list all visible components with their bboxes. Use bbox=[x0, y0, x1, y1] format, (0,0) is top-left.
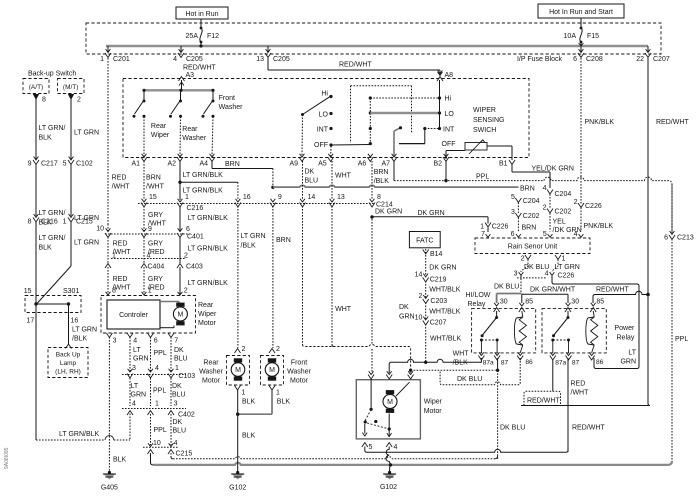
svg-text:LO: LO bbox=[319, 112, 329, 119]
svg-text:C403: C403 bbox=[186, 264, 203, 271]
svg-text:GRN: GRN bbox=[133, 356, 149, 363]
svg-text:/BLK: /BLK bbox=[453, 360, 469, 367]
svg-text:RED/WHT: RED/WHT bbox=[656, 119, 689, 126]
svg-text:4: 4 bbox=[545, 271, 549, 278]
svg-text:Controler: Controler bbox=[119, 312, 148, 319]
svg-text:C226: C226 bbox=[585, 203, 602, 210]
svg-text:LT GRN/BLK: LT GRN/BLK bbox=[59, 431, 100, 438]
svg-text:9: 9 bbox=[148, 226, 152, 233]
svg-text:BLK: BLK bbox=[39, 245, 53, 252]
svg-text:Washer: Washer bbox=[182, 135, 207, 142]
svg-text:B2: B2 bbox=[433, 161, 442, 168]
svg-text:GRY: GRY bbox=[148, 212, 163, 219]
svg-text:LO: LO bbox=[445, 111, 455, 118]
svg-text:DK GRN/WHT: DK GRN/WHT bbox=[530, 287, 576, 294]
svg-text:2: 2 bbox=[543, 205, 547, 212]
svg-text:C204: C204 bbox=[555, 191, 572, 198]
svg-text:2: 2 bbox=[574, 199, 578, 206]
svg-text:7: 7 bbox=[481, 231, 485, 238]
svg-text:3: 3 bbox=[514, 271, 518, 278]
svg-text:LT GRN: LT GRN bbox=[74, 240, 99, 247]
svg-text:RED: RED bbox=[571, 381, 586, 388]
svg-text:C219: C219 bbox=[430, 277, 447, 284]
svg-text:DK BLU: DK BLU bbox=[457, 376, 482, 383]
svg-text:PPL: PPL bbox=[154, 350, 167, 357]
svg-text:17: 17 bbox=[27, 318, 35, 325]
svg-text:6: 6 bbox=[154, 338, 158, 345]
svg-text:87: 87 bbox=[501, 360, 509, 367]
svg-text:OFF: OFF bbox=[442, 141, 456, 148]
svg-text:DK GRN: DK GRN bbox=[375, 209, 402, 216]
svg-text:4: 4 bbox=[147, 252, 151, 259]
svg-text:BLK: BLK bbox=[39, 135, 53, 142]
svg-text:Hi: Hi bbox=[445, 96, 452, 103]
svg-text:WHT: WHT bbox=[335, 306, 352, 313]
svg-text:BLK: BLK bbox=[277, 399, 291, 406]
svg-text:M: M bbox=[177, 312, 183, 319]
svg-text:BLU: BLU bbox=[305, 178, 319, 185]
svg-text:F15: F15 bbox=[587, 33, 599, 40]
svg-text:YEL/DK GRN: YEL/DK GRN bbox=[532, 166, 574, 173]
svg-text:DK: DK bbox=[399, 304, 409, 311]
svg-text:13: 13 bbox=[337, 194, 345, 201]
svg-text:F12: F12 bbox=[207, 33, 219, 40]
svg-text:LT GRN/BLK: LT GRN/BLK bbox=[188, 246, 229, 253]
svg-text:INT: INT bbox=[317, 127, 329, 134]
svg-text:RED: RED bbox=[112, 175, 127, 182]
svg-text:C204: C204 bbox=[523, 198, 540, 205]
svg-text:Front: Front bbox=[219, 95, 235, 102]
svg-text:DK BLU: DK BLU bbox=[500, 425, 525, 432]
svg-text:SWICH: SWICH bbox=[473, 127, 496, 134]
svg-text:DK GRN: DK GRN bbox=[418, 210, 445, 217]
svg-text:C216: C216 bbox=[41, 218, 58, 225]
svg-text:BRN: BRN bbox=[225, 161, 240, 168]
svg-text:(A/T): (A/T) bbox=[29, 84, 43, 91]
svg-text:LT GRN/BLK: LT GRN/BLK bbox=[188, 280, 229, 287]
svg-text:OFF: OFF bbox=[314, 142, 328, 149]
svg-text:RED/WHT: RED/WHT bbox=[527, 398, 560, 405]
svg-text:9A08I095: 9A08I095 bbox=[4, 447, 10, 469]
svg-text:6: 6 bbox=[186, 226, 190, 233]
svg-text:BRN: BRN bbox=[374, 169, 389, 176]
svg-text:5: 5 bbox=[369, 444, 373, 451]
svg-text:13: 13 bbox=[256, 56, 264, 63]
svg-text:BRN: BRN bbox=[522, 225, 537, 232]
svg-text:Rear: Rear bbox=[203, 360, 219, 367]
svg-text:RED/WHT: RED/WHT bbox=[596, 287, 629, 294]
svg-text:G102: G102 bbox=[380, 484, 397, 491]
svg-text:3: 3 bbox=[511, 209, 515, 216]
svg-text:Relay: Relay bbox=[468, 301, 486, 308]
svg-text:LT GRN/BLK: LT GRN/BLK bbox=[188, 215, 229, 222]
svg-text:SENSING: SENSING bbox=[473, 117, 505, 124]
svg-text:86: 86 bbox=[596, 359, 604, 366]
svg-text:Wiper: Wiper bbox=[424, 399, 443, 406]
svg-text:BLU: BLU bbox=[174, 356, 188, 363]
svg-text:7: 7 bbox=[174, 338, 178, 345]
svg-text:C202: C202 bbox=[555, 209, 572, 216]
svg-text:BLU: BLU bbox=[173, 428, 187, 435]
svg-text:Back-up Switch: Back-up Switch bbox=[28, 71, 76, 78]
svg-text:10: 10 bbox=[96, 226, 104, 233]
svg-text:14: 14 bbox=[308, 194, 316, 201]
svg-text:B1: B1 bbox=[499, 161, 508, 168]
svg-text:GRY: GRY bbox=[148, 241, 163, 248]
svg-text:YEL: YEL bbox=[553, 219, 566, 226]
svg-text:LT GRN/: LT GRN/ bbox=[39, 210, 66, 217]
svg-text:22: 22 bbox=[636, 56, 644, 63]
svg-text:BRN: BRN bbox=[520, 185, 535, 192]
svg-text:A9: A9 bbox=[289, 161, 298, 168]
svg-text:I/P Fuse Block: I/P Fuse Block bbox=[517, 56, 563, 63]
svg-text:Rain Senor Unit: Rain Senor Unit bbox=[508, 244, 557, 251]
svg-text:DK: DK bbox=[305, 169, 315, 176]
svg-text:C201: C201 bbox=[113, 56, 130, 63]
svg-text:C205: C205 bbox=[273, 56, 290, 63]
svg-text:2: 2 bbox=[184, 252, 188, 259]
svg-text:A6: A6 bbox=[358, 161, 367, 168]
svg-text:C213: C213 bbox=[677, 235, 694, 242]
svg-text:C215: C215 bbox=[176, 451, 193, 458]
svg-text:GRN: GRN bbox=[131, 392, 147, 399]
svg-text:WHT: WHT bbox=[453, 351, 470, 358]
svg-text:WIPER: WIPER bbox=[473, 107, 496, 114]
svg-text:1: 1 bbox=[112, 252, 116, 259]
svg-text:1: 1 bbox=[480, 223, 484, 230]
svg-text:GRN: GRN bbox=[620, 359, 636, 366]
svg-text:LT: LT bbox=[131, 383, 139, 390]
svg-text:1: 1 bbox=[276, 390, 280, 397]
svg-text:1: 1 bbox=[175, 365, 179, 372]
svg-text:1: 1 bbox=[155, 401, 159, 408]
svg-text:Hot in Run: Hot in Run bbox=[185, 11, 218, 18]
svg-text:3: 3 bbox=[132, 365, 136, 372]
svg-text:/BLK: /BLK bbox=[374, 178, 390, 185]
svg-text:Lamp: Lamp bbox=[60, 360, 77, 367]
svg-text:Wiper: Wiper bbox=[151, 132, 170, 139]
svg-text:Hi: Hi bbox=[321, 91, 328, 98]
svg-text:A3: A3 bbox=[186, 72, 195, 79]
svg-text:C214: C214 bbox=[376, 202, 393, 209]
svg-text:16: 16 bbox=[243, 194, 251, 201]
svg-text:DK: DK bbox=[172, 383, 182, 390]
svg-text:LT GRN: LT GRN bbox=[241, 233, 266, 240]
svg-text:/RED: /RED bbox=[148, 249, 165, 256]
svg-text:Motor: Motor bbox=[198, 320, 217, 327]
svg-text:3: 3 bbox=[113, 338, 117, 345]
svg-text:/BLK: /BLK bbox=[72, 336, 88, 343]
svg-text:1: 1 bbox=[100, 56, 104, 63]
svg-text:(LH, RH): (LH, RH) bbox=[55, 369, 81, 376]
svg-text:4: 4 bbox=[394, 444, 398, 451]
svg-text:2: 2 bbox=[521, 256, 525, 263]
svg-text:16: 16 bbox=[71, 318, 79, 325]
svg-text:BLK: BLK bbox=[242, 433, 256, 440]
svg-text:87: 87 bbox=[572, 360, 580, 367]
svg-text:INT: INT bbox=[443, 127, 455, 134]
svg-text:RED: RED bbox=[113, 276, 128, 283]
svg-text:RED/WHT: RED/WHT bbox=[572, 425, 605, 432]
svg-text:BRN: BRN bbox=[146, 175, 161, 182]
svg-text:WHT: WHT bbox=[335, 173, 352, 180]
svg-text:4: 4 bbox=[174, 440, 178, 447]
svg-text:A4: A4 bbox=[199, 161, 208, 168]
svg-text:Rear: Rear bbox=[198, 302, 214, 309]
svg-text:3: 3 bbox=[174, 401, 178, 408]
svg-text:Power: Power bbox=[615, 325, 636, 332]
svg-text:DK: DK bbox=[174, 347, 184, 354]
svg-text:Motor: Motor bbox=[202, 378, 221, 385]
svg-text:RED: RED bbox=[113, 241, 128, 248]
svg-text:1: 1 bbox=[185, 194, 189, 201]
svg-text:15: 15 bbox=[24, 288, 32, 295]
svg-text:B14: B14 bbox=[430, 251, 443, 258]
svg-text:Motor: Motor bbox=[290, 378, 309, 385]
svg-text:C404: C404 bbox=[148, 264, 165, 271]
svg-text:HI/LOW: HI/LOW bbox=[466, 292, 491, 299]
svg-text:A1: A1 bbox=[131, 161, 140, 168]
svg-text:6: 6 bbox=[511, 231, 515, 238]
svg-text:PPL: PPL bbox=[153, 388, 166, 395]
svg-text:G405: G405 bbox=[101, 485, 118, 492]
svg-text:C226: C226 bbox=[492, 223, 509, 230]
svg-text:2: 2 bbox=[242, 346, 246, 353]
svg-text:RED/WHT: RED/WHT bbox=[339, 62, 372, 69]
svg-text:C202: C202 bbox=[523, 213, 540, 220]
svg-text:C402: C402 bbox=[178, 412, 195, 419]
svg-text:/WHT: /WHT bbox=[571, 390, 590, 397]
svg-text:2: 2 bbox=[276, 346, 280, 353]
svg-text:C203: C203 bbox=[430, 298, 447, 305]
svg-text:A2: A2 bbox=[167, 161, 176, 168]
svg-text:C207: C207 bbox=[653, 56, 670, 63]
svg-text:4: 4 bbox=[543, 185, 547, 192]
svg-text:Rear: Rear bbox=[182, 126, 198, 133]
svg-text:DK BLU: DK BLU bbox=[494, 284, 519, 291]
svg-text:C103: C103 bbox=[178, 373, 195, 380]
svg-text:C215: C215 bbox=[76, 218, 93, 225]
svg-text:PPL: PPL bbox=[675, 336, 688, 343]
svg-text:WHT/BLK: WHT/BLK bbox=[429, 309, 460, 316]
svg-text:4: 4 bbox=[155, 365, 159, 372]
svg-text:LT GRN/: LT GRN/ bbox=[39, 235, 66, 242]
svg-text:BLK: BLK bbox=[113, 457, 127, 464]
svg-text:Wiper: Wiper bbox=[198, 311, 217, 318]
svg-text:Washer: Washer bbox=[199, 369, 224, 376]
svg-text:LT: LT bbox=[133, 347, 141, 354]
svg-text:10: 10 bbox=[153, 440, 161, 447]
svg-text:Rear: Rear bbox=[151, 123, 167, 130]
svg-text:BRN: BRN bbox=[276, 237, 291, 244]
svg-text:LT GRN/: LT GRN/ bbox=[39, 125, 66, 132]
svg-text:S301: S301 bbox=[63, 288, 79, 295]
svg-text:LT GRN: LT GRN bbox=[72, 327, 97, 334]
svg-text:2: 2 bbox=[418, 293, 422, 300]
svg-text:Back Up: Back Up bbox=[56, 352, 81, 359]
svg-text:14: 14 bbox=[415, 272, 423, 279]
svg-text:8: 8 bbox=[28, 218, 32, 225]
svg-text:LT GRN/BLK: LT GRN/BLK bbox=[183, 172, 224, 179]
svg-text:PPL: PPL bbox=[476, 174, 489, 181]
svg-text:(M/T): (M/T) bbox=[63, 84, 79, 91]
svg-text:M: M bbox=[235, 367, 241, 374]
svg-text:4: 4 bbox=[133, 338, 137, 345]
svg-text:M: M bbox=[269, 367, 275, 374]
svg-text:GRY: GRY bbox=[148, 276, 163, 283]
svg-text:RED/WHT: RED/WHT bbox=[183, 65, 216, 72]
svg-text:5: 5 bbox=[511, 194, 515, 201]
svg-text:30: 30 bbox=[500, 299, 508, 306]
svg-text:1: 1 bbox=[63, 218, 67, 225]
svg-text:C205: C205 bbox=[186, 56, 203, 63]
svg-text:WHT/BLK: WHT/BLK bbox=[430, 336, 461, 343]
svg-text:LT: LT bbox=[628, 350, 636, 357]
svg-text:30: 30 bbox=[571, 299, 579, 306]
svg-text:PPL: PPL bbox=[154, 427, 167, 434]
svg-text:2: 2 bbox=[77, 97, 81, 104]
svg-text:/BLK: /BLK bbox=[241, 243, 257, 250]
svg-text:6: 6 bbox=[573, 56, 577, 63]
svg-text:A5: A5 bbox=[318, 161, 327, 168]
svg-text:9: 9 bbox=[278, 194, 282, 201]
svg-text:GRN: GRN bbox=[399, 314, 415, 321]
svg-text:C207: C207 bbox=[430, 320, 447, 327]
svg-text:WHT/BLK: WHT/BLK bbox=[429, 287, 460, 294]
svg-text:/WHT: /WHT bbox=[112, 184, 131, 191]
svg-text:4: 4 bbox=[132, 401, 136, 408]
svg-text:4: 4 bbox=[574, 231, 578, 238]
svg-text:DK: DK bbox=[173, 419, 183, 426]
svg-text:6: 6 bbox=[664, 235, 668, 242]
svg-text:PNK/BLK: PNK/BLK bbox=[585, 119, 615, 126]
svg-text:C401: C401 bbox=[187, 234, 204, 241]
svg-text:5: 5 bbox=[543, 231, 547, 238]
svg-text:4: 4 bbox=[173, 56, 177, 63]
svg-text:A7: A7 bbox=[381, 161, 390, 168]
svg-text:15: 15 bbox=[149, 194, 157, 201]
svg-text:Hot In Run and Start: Hot In Run and Start bbox=[549, 9, 613, 16]
svg-text:LT GRN: LT GRN bbox=[555, 264, 580, 271]
svg-text:PNK/BLK: PNK/BLK bbox=[584, 223, 614, 230]
svg-text:Motor: Motor bbox=[424, 408, 443, 415]
svg-text:C217: C217 bbox=[41, 161, 58, 168]
svg-text:BLU: BLU bbox=[172, 392, 186, 399]
svg-text:2: 2 bbox=[184, 288, 188, 295]
svg-text:1: 1 bbox=[148, 288, 152, 295]
svg-text:8: 8 bbox=[42, 97, 46, 104]
svg-text:85: 85 bbox=[525, 299, 533, 306]
svg-text:Washer: Washer bbox=[219, 104, 244, 111]
svg-text:M: M bbox=[387, 399, 393, 406]
svg-text:25A: 25A bbox=[186, 33, 199, 40]
svg-text:9: 9 bbox=[28, 161, 32, 168]
svg-text:86: 86 bbox=[525, 359, 533, 366]
svg-text:G102: G102 bbox=[229, 485, 246, 492]
svg-text:85: 85 bbox=[596, 299, 604, 306]
svg-text:FATC: FATC bbox=[416, 238, 433, 245]
svg-text:BLK: BLK bbox=[242, 399, 256, 406]
svg-text:C208: C208 bbox=[586, 56, 603, 63]
svg-text:1: 1 bbox=[242, 390, 246, 397]
svg-text:1: 1 bbox=[562, 256, 566, 263]
svg-text:C216: C216 bbox=[187, 205, 204, 212]
svg-text:87a: 87a bbox=[555, 360, 566, 367]
svg-text:10A: 10A bbox=[564, 33, 577, 40]
svg-text:Front: Front bbox=[291, 360, 307, 367]
svg-text:A8: A8 bbox=[445, 72, 454, 79]
svg-text:8: 8 bbox=[112, 288, 116, 295]
svg-text:/WHT: /WHT bbox=[146, 184, 165, 191]
svg-text:DK GRN: DK GRN bbox=[429, 265, 456, 272]
svg-text:Relay: Relay bbox=[617, 335, 635, 342]
svg-text:LT GRN: LT GRN bbox=[74, 130, 99, 137]
svg-text:10: 10 bbox=[415, 315, 423, 322]
svg-text:5: 5 bbox=[63, 161, 67, 168]
svg-text:Washer: Washer bbox=[287, 369, 312, 376]
svg-text:87a: 87a bbox=[483, 360, 494, 367]
svg-text:C226: C226 bbox=[558, 273, 575, 280]
svg-text:8: 8 bbox=[377, 194, 381, 201]
svg-text:C102: C102 bbox=[76, 161, 93, 168]
